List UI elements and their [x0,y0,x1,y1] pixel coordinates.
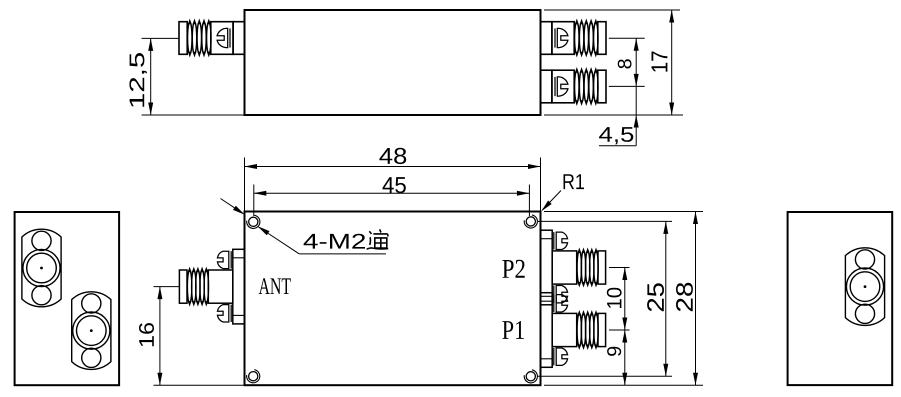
dimension 9 line [624,330,626,385]
front view: mounting hole top-right (M2) [526,217,535,226]
dimension text 17 [652,52,668,72]
top view: P1 connector (right bottom) [541,70,607,103]
top view: P2 connector (right top) [541,22,607,55]
dimension 12,5 extension line (bottom, to body) [142,114,245,116]
left side view: body outline [15,212,120,385]
leader 4-M2 underline [299,253,386,255]
dimension 25 extension line (top) [538,220,672,222]
dimension 25 line [665,221,667,376]
dimension 48 extension line (left) [244,158,246,212]
label P1 [502,321,524,339]
dimension text 10 [607,288,622,308]
label P2 [502,260,524,278]
front view: mounting hole bottom-left (M2) [249,372,258,381]
dimension text 45 [383,177,406,193]
dimension 45 extension line (left) [253,185,255,217]
label Chinese tong (through) [367,229,389,249]
dimension text 9 [607,347,621,356]
dimension 28 line [695,212,697,386]
label R1 [564,174,585,189]
dimension 8 extension line (bottom) [609,85,645,87]
dimension 16 extension line (top) [154,286,180,288]
connector body cylinder [208,270,233,303]
connector threads [575,67,598,106]
dimension 10 extension line (bottom) [609,329,630,331]
dimension 45 line [254,192,530,194]
dimension 10 extension line (top) [609,267,630,269]
connector flange plate [233,249,245,324]
connector threads [575,19,598,58]
dimension text 48 [379,148,406,164]
flange screw (bottom) [554,286,568,303]
connector nut slot detail [555,77,568,96]
connector end cap [179,270,187,303]
connector threads [577,310,598,350]
dimension 4,5 underline [599,145,636,147]
dimension text 16 [139,323,154,346]
flange screw (top) [554,295,568,312]
dimension 17 extension line (top) [544,9,680,11]
dimension 8 line [635,38,637,86]
dimension 17 extension line (bottom) [544,114,683,116]
dimension 16 extension line (bottom) [154,384,245,386]
dimension text 4,5 [599,127,633,144]
dimension 12,5 extension line (connector center) [142,37,179,39]
dimension 12,5 line [150,38,152,115]
dimension text 28 [676,283,693,311]
right side view: body outline [788,212,893,385]
dimension 17 line [671,10,673,115]
dimension 48 line [245,166,541,168]
dimension 8 extension line (top) [609,37,645,39]
connector body cylinder [552,251,577,284]
flange screw (top) [217,251,231,268]
dimension text 25 [647,283,664,311]
connector threads [577,248,598,288]
connector end cap [598,313,606,346]
dimension 28 extension line (bottom) [544,384,703,386]
connector end cap [598,251,606,284]
dimension 45 extension line (right) [528,185,530,217]
left side view: P2 connector flange [22,229,61,307]
dimension 48 extension line (right) [540,158,542,212]
connector flange plate [541,293,553,368]
connector flange plate [541,230,553,305]
dimension 10 line [624,268,626,331]
top view: body outline [245,10,541,115]
connector nut slot detail [217,28,230,47]
dimension text 12,5 [129,53,147,107]
front view: mounting hole bottom-right (M2) [526,372,535,381]
dimension 25 extension line (bottom) [538,375,672,377]
right side view: ANT connector flange [845,248,884,326]
connector threads [188,19,211,58]
left side view: P1 connector flange [72,292,111,370]
dimension 4,5 line [635,86,637,145]
connector body cylinder [552,313,577,346]
leader 4-M2 to top-left hole [259,227,300,254]
front view: mounting hole top-left (M2) [249,217,258,226]
label ANT [259,278,291,294]
dimension text 8 [618,59,632,68]
dimension 28 extension line (top) [544,211,703,213]
dimension 16 line [159,287,161,386]
flange screw (bottom) [554,348,568,365]
front view: body outline [245,212,541,386]
connector nut slot detail [555,28,568,47]
leader arrow at top-left corner [221,199,243,214]
flange screw (bottom) [217,305,231,322]
connector threads [187,267,208,307]
label 4-M2 [304,234,365,249]
leader R1 to top-right corner [542,191,561,211]
flange screw (top) [554,232,568,249]
top view: ANT connector (left, pointing left) [179,22,245,55]
